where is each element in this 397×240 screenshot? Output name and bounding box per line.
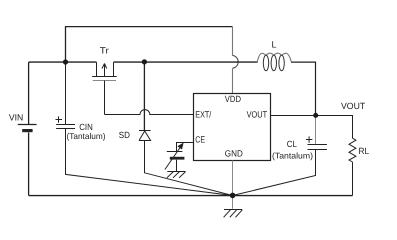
svg-text:CL: CL <box>287 139 297 149</box>
svg-text:VIN: VIN <box>9 112 23 122</box>
svg-text:GND: GND <box>225 148 243 158</box>
svg-text:VOUT: VOUT <box>341 101 366 111</box>
svg-text:(Tantalum): (Tantalum) <box>67 131 106 141</box>
svg-text:L: L <box>272 40 277 50</box>
svg-text:Tr: Tr <box>100 46 109 56</box>
svg-text:SD: SD <box>119 130 131 140</box>
svg-text:(Tantalum): (Tantalum) <box>272 150 313 160</box>
svg-text:EXT/: EXT/ <box>195 110 211 120</box>
svg-text:VDD: VDD <box>225 94 242 104</box>
svg-text:RL: RL <box>359 146 370 156</box>
svg-text:VOUT: VOUT <box>247 110 268 120</box>
svg-text:CE: CE <box>195 134 205 144</box>
